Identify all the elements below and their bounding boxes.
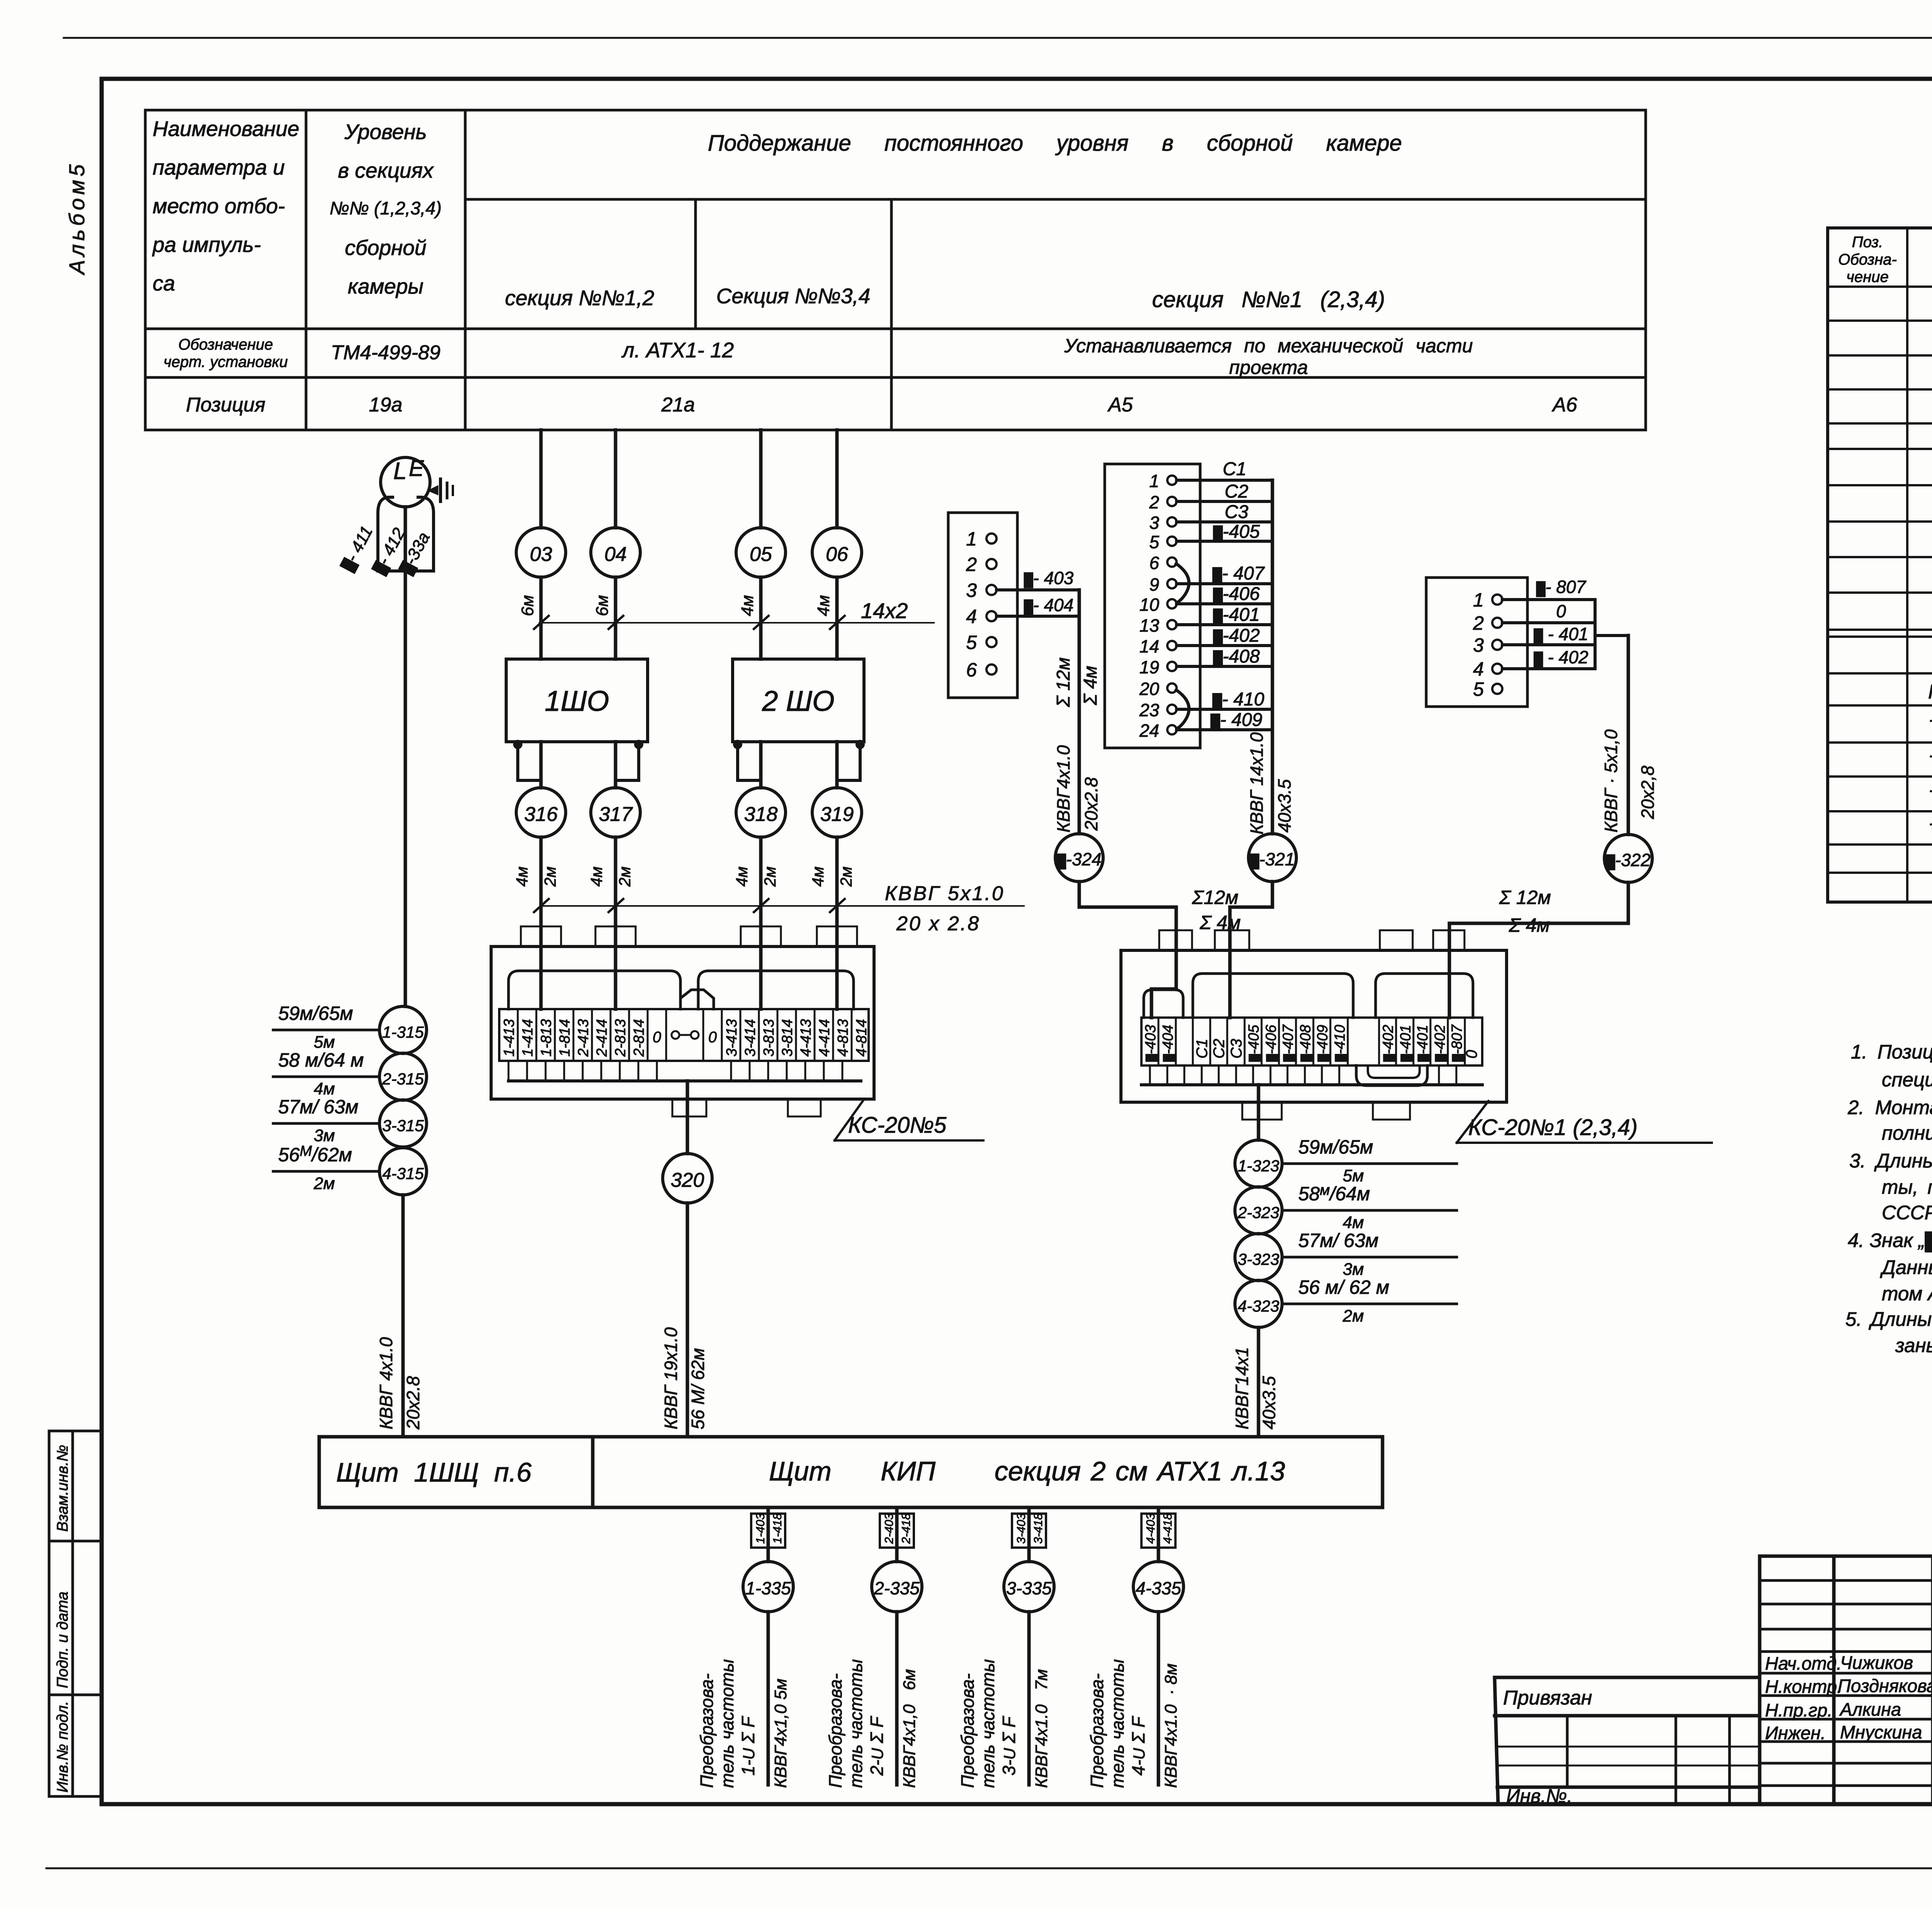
connector block 5 terminals [1426,578,1527,707]
svg-text:█-402: █-402 [1380,1025,1396,1062]
chain circle 1-315 [379,1006,427,1054]
svg-text:3: 3 [1473,634,1484,656]
svg-text:█-403: █-403 [1143,1025,1159,1062]
svg-text:58м/64м: 58м/64м [1298,1182,1370,1205]
svg-text:С3: С3 [1228,1039,1245,1059]
svg-text:20х2,8: 20х2,8 [1638,765,1658,819]
fraction line 59м/65м 5м [273,1003,379,1052]
svg-text:4: 4 [966,606,977,627]
svg-text:20 х 2.8: 20 х 2.8 [896,913,980,935]
svg-text:2м: 2м [761,867,779,887]
svg-text:3м: 3м [1343,1260,1364,1279]
svg-text:Чижиков: Чижиков [1840,1652,1913,1673]
frequency converter text 3 [957,1674,978,1788]
fraction line 58м/64м 4м [1282,1182,1457,1232]
hose loop below 2ШО left [735,741,761,780]
svg-text:0: 0 [1556,601,1566,621]
cable label КВВГ 19х1.0 / 56М 62м [661,1327,681,1429]
svg-text:Труба 14х2-20. ГОСТ 8734-75: Труба 14х2-20. ГОСТ 8734-75 [1928,716,1932,739]
hose loop below 2ШО right [837,741,863,780]
svg-text:4-335: 4-335 [1136,1578,1181,1598]
svg-text:Щит 1ШЩ п.6: Щит 1ШЩ п.6 [336,1457,532,1487]
svg-text:20: 20 [1139,679,1160,699]
wire terminal 3 to cable [997,588,1079,591]
svg-text:КВВГ 19х1.0: КВВГ 19х1.0 [661,1327,681,1429]
TITLE BLOCK [1495,1556,1932,1804]
chain circle 3-315 [379,1100,427,1147]
svg-text:3-418: 3-418 [1031,1513,1045,1544]
instrument circle 4-335 [1133,1562,1184,1612]
svg-text:1-414: 1-414 [520,1019,536,1057]
svg-text:3: 3 [966,579,977,601]
svg-text:са: са [153,271,175,295]
wire KC-20 N1 to 1-323 [1257,1085,1260,1140]
svg-text:2-418: 2-418 [899,1513,913,1544]
instrument circle 320 [663,1154,712,1203]
svg-text:Мнускина: Мнускина [1840,1722,1922,1742]
wires terminals to cable bus [1177,480,1272,730]
wire 2ШО to 319 [835,742,839,788]
drop 4-335 [1141,1507,1175,1562]
svg-text:секция №№1 (2,3,4): секция №№1 (2,3,4) [1152,287,1385,312]
svg-text:СССР от 17.12.1979 г. №.: СССР от 17.12.1979 г. №. 89-Д. [1882,1201,1932,1223]
svg-text:2: 2 [1473,612,1484,634]
label KC-20 N5 [835,1100,983,1140]
svg-text:том АТХ1-8.: том АТХ1-8. [1882,1283,1932,1305]
tag label I-412 [369,525,409,577]
svg-text:КВВГ 5х1.0: КВВГ 5х1.0 [885,882,1005,905]
svg-text:█-401: █-401 [1213,605,1260,625]
svg-text:2м: 2м [541,867,559,887]
svg-text:1-418: 1-418 [770,1513,784,1544]
wire 317 to KC-20 N5 [614,837,617,1009]
svg-text:2м: 2м [616,867,634,887]
svg-text:чение: чение [1846,268,1888,285]
bottom comb [1149,1065,1151,1085]
terminal labels KC-20 N5 [501,1019,870,1057]
svg-text:5: 5 [1149,532,1159,552]
wire from LE down to 1-315 chain [404,507,407,1006]
drop 3-335 [1012,1507,1046,1562]
svg-text:С1: С1 [1223,459,1246,479]
frequency converter text 4 [1087,1674,1107,1788]
svg-text:тель частоты: тель частоты [1107,1659,1128,1788]
svg-text:полнить согласно инструкции: полнить согласно инструкции ТИ4-25088. 1… [1882,1122,1932,1144]
svg-text:1-813: 1-813 [538,1019,554,1057]
jumper terminal 6 to 10 [1176,564,1189,603]
hose loop below 1ШО right [616,741,642,780]
svg-text:4м: 4м [1343,1213,1364,1232]
svg-text:3. Длины кабелей даны с уч: 3. Длины кабелей даны с учетом 6% надбав… [1849,1150,1932,1172]
svg-text:2-814: 2-814 [631,1019,647,1057]
terminal labels KC-20 N1 [1143,1024,1480,1062]
svg-text:Секция №№3,4: Секция №№3,4 [716,284,871,308]
fraction line 56М/62м 2м [273,1143,379,1193]
wire II-322 to KC-20 N1 [1449,882,1628,1018]
wire length label 6м [593,595,612,616]
svg-text:4м: 4м [733,867,751,887]
wire drop 4 from table to 2ШО [835,430,839,528]
svg-text:1-413: 1-413 [501,1019,517,1057]
terminal strip [1141,1018,1482,1065]
chain circle 4-315 [379,1148,427,1195]
svg-text:40х3.5: 40х3.5 [1274,779,1294,833]
instrument circle 1-335 [743,1562,793,1612]
svg-text:56 м/ 62 м: 56 м/ 62 м [1298,1276,1389,1298]
svg-text:5: 5 [1473,678,1484,700]
svg-text:6: 6 [966,659,977,681]
svg-text:56 М/ 62м: 56 М/ 62м [688,1348,708,1429]
svg-text:█- 403: █- 403 [1024,568,1074,588]
svg-text:Поз.: Поз. [1852,234,1883,251]
svg-text:Альбом5: Альбом5 [65,161,89,275]
svg-text:█- 411: █- 411 [338,523,377,574]
svg-text:4-414: 4-414 [816,1019,833,1057]
svg-text:1: 1 [1473,589,1484,611]
labels 4м 2м [733,867,751,887]
svg-text:1: 1 [966,528,977,550]
instrument circle 319 [812,788,862,837]
svg-text:20х2.8: 20х2.8 [1081,777,1101,831]
wire KC-20 N5 to 320 [686,1081,689,1154]
svg-text:317: 317 [599,803,633,826]
svg-text:06: 06 [826,543,848,566]
svg-text:1: 1 [1149,471,1159,491]
wire 316 to KC-20 N5 [539,837,543,1009]
svg-text:2-335: 2-335 [874,1578,920,1598]
cable bus down to II-321 [1271,480,1274,834]
svg-text:1-323: 1-323 [1238,1157,1279,1175]
svg-text:Преобразова-: Преобразова- [957,1674,978,1788]
svg-text:Нач.отд.: Нач.отд. [1765,1653,1842,1674]
svg-text:КС-20№1 (2,3,4): КС-20№1 (2,3,4) [1468,1115,1638,1140]
cable circle II-324 [1055,834,1103,882]
svg-text:секция №№1,2: секция №№1,2 [505,286,654,310]
instrument circle 318 [736,788,786,837]
svg-text:4-323: 4-323 [1238,1297,1279,1315]
svg-text:6м: 6м [593,595,612,616]
wire below 4-335 [1157,1612,1160,1785]
svg-text:2-315: 2-315 [382,1070,424,1088]
svg-text:ра импуль-: ра импуль- [152,233,261,257]
svg-text:Взам.инв.№: Взам.инв.№ [54,1445,71,1532]
cable down to II-322 [1627,636,1630,834]
svg-text:Σ 12м: Σ 12м [1053,658,1074,707]
svg-text:4м: 4м [587,867,605,887]
svg-text:4м: 4м [809,867,827,887]
svg-text:4м: 4м [314,1079,335,1098]
svg-text:L: L [393,458,406,484]
svg-text:Щит КИП секция 2 см А: Щит КИП секция 2 см АТХ1 л.13 [769,1456,1285,1486]
svg-text:Σ12м: Σ12м [1192,887,1238,908]
svg-text:спецификации АТХ1. С01.: спецификации АТХ1. С01. [1882,1069,1932,1091]
tag label I-33 [396,529,434,577]
svg-text:№№ (1,2,3,4): №№ (1,2,3,4) [330,198,442,218]
wire II-321 to KC-20 N1 [1230,882,1272,1018]
svg-text:█-401: █-401 [1415,1025,1431,1062]
svg-text:Устанавливается по механическо: Устанавливается по механической части [1064,335,1473,357]
inner covers [509,971,680,1009]
wire length label 4м [814,595,833,616]
svg-text:Обозначение: Обозначение [178,336,273,353]
svg-text:2 ШО: 2 ШО [762,685,834,717]
svg-text:4-U Σ F: 4-U Σ F [1128,1716,1148,1776]
svg-text:КВВГ4х1.0: КВВГ4х1.0 [1053,745,1073,833]
svg-text:3-403: 3-403 [1014,1513,1028,1544]
svg-text:05: 05 [750,543,772,566]
svg-text:█-324: █-324 [1057,849,1102,870]
svg-text:С1: С1 [1194,1039,1211,1059]
cable label КВВГ4х1.0 / 20х2.8 [1053,745,1073,833]
tall connector block [1105,464,1200,748]
svg-text:█- 410: █- 410 [1213,689,1264,710]
svg-text:█-406: █-406 [1213,584,1260,604]
jumper loop below [1356,1065,1427,1086]
svg-text:21а: 21а [661,394,695,416]
wire length label 6м [518,595,537,616]
svg-text:20х2.8: 20х2.8 [403,1376,423,1430]
cabinet 1ШО [506,659,648,742]
svg-text:2-414: 2-414 [594,1019,610,1057]
cable label КВВГ 5х1,0 / 20х2,8 [1601,729,1621,833]
svg-text:57м/ 63м: 57м/ 63м [1298,1230,1379,1251]
svg-text:4-813: 4-813 [835,1019,851,1057]
svg-text:КВВГ4х1,0 5м: КВВГ4х1,0 5м [771,1679,790,1788]
svg-text:13: 13 [1139,615,1160,636]
svg-text:4: 4 [1473,658,1484,680]
TOP LEFT TABLE [145,110,1646,430]
svg-text:█- 407: █- 407 [1213,563,1265,584]
svg-text:19а: 19а [369,394,403,416]
svg-text:тель частоты: тель частоты [978,1659,998,1788]
instrument circle 06 [812,528,862,577]
instrument circle 316 [516,788,566,837]
wires 5-term to cable [1502,600,1628,669]
labels 4м 2м [513,867,531,887]
svg-text:3-315: 3-315 [382,1116,424,1135]
svg-text:0: 0 [653,1029,661,1046]
pin numbers 1-24 [1139,471,1160,741]
wire 4-315 to panel [401,1195,405,1437]
svg-text:2-413: 2-413 [575,1019,592,1057]
instrument circle 05 [736,528,786,577]
svg-text:█-410: █-410 [1332,1025,1348,1062]
svg-text:█ - 401: █ - 401 [1534,624,1588,644]
wire II-324 to KC-20 N1 [1079,882,1176,1018]
connector block 6 terminals [948,513,1017,698]
svg-text:█-405: █-405 [1213,522,1260,542]
panel Щит КИП секция 2 [593,1437,1383,1507]
svg-text:камеры: камеры [348,274,423,298]
svg-text:Σ 4м: Σ 4м [1080,666,1101,705]
svg-text:19: 19 [1139,657,1159,677]
svg-text:40х3.5: 40х3.5 [1259,1376,1279,1429]
svg-text:КВВГ14х1: КВВГ14х1 [1232,1347,1252,1429]
svg-text:3-413: 3-413 [724,1019,740,1057]
ground symbol [429,479,453,501]
pin numbers 1-5 [1473,589,1484,700]
wire 2ШО to 318 [759,742,763,788]
svg-text:█ - 402: █ - 402 [1534,647,1588,668]
fraction line 56м/62м 2м [1282,1276,1457,1325]
svg-text:14: 14 [1139,636,1159,656]
svg-text:04: 04 [604,543,627,566]
svg-text:█-402: █-402 [1432,1025,1448,1062]
svg-text:1-814: 1-814 [557,1019,573,1057]
svg-text:тель частоты: тель частоты [846,1659,866,1788]
svg-text:5м: 5м [1343,1166,1364,1185]
wire drop 3 from table to 2ШО [759,430,763,528]
svg-text:2. Монтаж защитного занулени: 2. Монтаж защитного зануления и заземлен… [1847,1096,1932,1118]
svg-text:Привязан: Привязан [1503,1687,1592,1709]
svg-text:Σ 4м: Σ 4м [1509,914,1550,936]
svg-text:█- 807: █- 807 [1536,577,1587,597]
svg-text:█-409: █-409 [1315,1025,1331,1062]
svg-text:Инжен.: Инжен. [1765,1723,1826,1743]
wire drop 1 from table to 1ШО [539,430,543,528]
svg-text:Алкина: Алкина [1839,1699,1901,1720]
svg-text:сборной: сборной [345,236,426,260]
svg-text:1-315: 1-315 [382,1023,424,1041]
terminal strip cells [499,1009,869,1061]
svg-text:E: E [409,456,424,481]
svg-text:2: 2 [966,554,977,575]
svg-text:1. Позиции приборов и аппар: 1. Позиции приборов и аппаратуры указаны… [1851,1041,1932,1063]
bottom tabs [672,1099,706,1116]
svg-text:320: 320 [671,1169,704,1191]
svg-text:5м: 5м [314,1033,335,1052]
svg-text:Преобразова-: Преобразова- [1087,1674,1107,1788]
svg-text:█-408: █-408 [1298,1025,1314,1062]
cable line КВВГ 5х1.0 20х2.8 [534,899,1024,912]
svg-text:6м: 6м [518,595,537,616]
instrument circle LE (level element) [381,456,430,507]
svg-text:█-807: █-807 [1449,1024,1465,1062]
svg-text:2-U Σ F: 2-U Σ F [867,1716,887,1776]
svg-text:КВВГ 4х1.0: КВВГ 4х1.0 [376,1337,396,1429]
svg-text:2-323: 2-323 [1237,1203,1279,1222]
sheet outer thin border [64,37,1932,39]
wire below 1-335 [767,1612,770,1785]
svg-text:6: 6 [1149,553,1159,573]
NOTES [1845,1041,1932,1356]
svg-text:ТМ4-499-89: ТМ4-499-89 [331,342,440,364]
svg-text:Наименование: Наименование [153,117,299,141]
cable circle II-321 [1248,834,1296,882]
svg-text:10: 10 [1139,595,1160,615]
svg-text:0: 0 [1463,1050,1480,1059]
svg-text:3-335: 3-335 [1006,1578,1052,1598]
svg-text:КВВГ 14х1.0: КВВГ 14х1.0 [1247,732,1267,834]
chain circle 4-323 [1235,1280,1282,1327]
svg-text:Позднякова: Позднякова [1838,1675,1932,1696]
svg-text:3м: 3м [314,1126,335,1145]
svg-text:С2: С2 [1211,1039,1228,1059]
svg-text:А6: А6 [1551,394,1577,416]
svg-text:3-U Σ F: 3-U Σ F [999,1716,1019,1776]
svg-text:4-413: 4-413 [798,1019,814,1057]
svg-text:4-403: 4-403 [1144,1513,1157,1544]
svg-text:Обозна-: Обозна- [1838,251,1897,268]
fraction line 57м/63м 3м [273,1096,379,1145]
frequency converter text 1 [697,1674,717,1788]
jumper terminal 20 to 24 [1176,690,1189,729]
svg-text:Преобразова-: Преобразова- [697,1674,717,1788]
pipe line 14x2 [534,616,934,629]
label KC-20 N1 (2,3,4) [1457,1101,1712,1143]
svg-text:2: 2 [1149,492,1159,512]
svg-text:КС-20№5: КС-20№5 [848,1113,947,1138]
svg-text:14х2: 14х2 [861,598,908,623]
svg-text:3-323: 3-323 [1238,1250,1279,1268]
wire terminal 4 to cable [997,615,1079,618]
svg-text:57м/ 63м: 57м/ 63м [278,1096,359,1118]
svg-text:2-813: 2-813 [612,1019,629,1057]
cable label КВВГ14х1.0 / 40х3.5 [1247,732,1267,834]
svg-text:3: 3 [1149,513,1159,533]
frequency converter text 2 [825,1674,845,1788]
panel Щит 1ШЩ п.6 [319,1437,593,1507]
svg-text:█-405: █-405 [1246,1025,1262,1062]
svg-text:2м: 2м [313,1174,335,1193]
svg-text:КВВГ · 5х1,0: КВВГ · 5х1,0 [1601,729,1621,833]
svg-text:56М/62м: 56М/62м [278,1143,352,1166]
svg-text:Преобразова-: Преобразова- [825,1674,845,1788]
hose loop below 1ШО left [515,741,541,780]
wire drop 2 from table to 1ШО [614,430,617,528]
wire labels column [1211,459,1265,730]
svg-text:2-403: 2-403 [882,1513,896,1544]
svg-text:параметра и: параметра и [153,155,285,179]
svg-text:█-407: █-407 [1280,1024,1296,1062]
svg-text:5: 5 [966,632,977,653]
drop 2-335 [880,1507,914,1562]
svg-text:Инв.№ подл.: Инв.№ подл. [54,1701,71,1793]
svg-text:Уровень: Уровень [344,120,427,144]
svg-text:█-321: █-321 [1250,849,1295,870]
cable label КВВГ14х1 / 40х3.5 [1232,1347,1252,1429]
svg-text:2м: 2м [837,867,855,887]
fraction line 59м/65м 5м [1282,1136,1457,1185]
cable label КВВГ 4х1.0 / 20х2.8 [376,1337,396,1429]
svg-text:КВВГ4х1.0 7м: КВВГ4х1.0 7м [1032,1669,1051,1788]
svg-text:█- 409: █- 409 [1211,710,1262,730]
svg-text:в секциях: в секциях [338,158,434,182]
svg-text:0: 0 [708,1029,717,1046]
wire 319 to KC-20 N5 [835,837,839,1009]
svg-text:319: 319 [820,803,854,826]
cable circle II-322 [1604,834,1652,882]
chain circle 2-315 [379,1053,427,1100]
svg-text:█-408: █-408 [1213,646,1260,667]
svg-text:4-814: 4-814 [854,1019,870,1057]
svg-text:1-403: 1-403 [753,1513,767,1544]
svg-text:5. Длины кабелей для отсто: 5. Длины кабелей для отстойника диаметро… [1845,1308,1932,1330]
svg-text:4м: 4м [738,595,757,616]
junction box KC-20 N1 [1121,930,1507,1120]
fraction line 58м/64м 4м [273,1049,379,1098]
svg-text:Данный чертеж рассматривать: Данный чертеж рассматривать совместно с … [1880,1256,1932,1278]
bottom-left marginal cells [49,1431,102,1796]
pin numbers 1-6 [966,528,977,681]
svg-text:Позиция: Позиция [186,394,265,416]
svg-text:03: 03 [530,543,552,566]
svg-text:4-315: 4-315 [382,1164,424,1183]
svg-text:█-322: █-322 [1606,850,1651,870]
svg-text:проекта: проекта [1229,357,1308,378]
svg-text:Инв.№.: Инв.№. [1506,1785,1572,1807]
svg-text:1ШО: 1ШО [545,685,609,717]
